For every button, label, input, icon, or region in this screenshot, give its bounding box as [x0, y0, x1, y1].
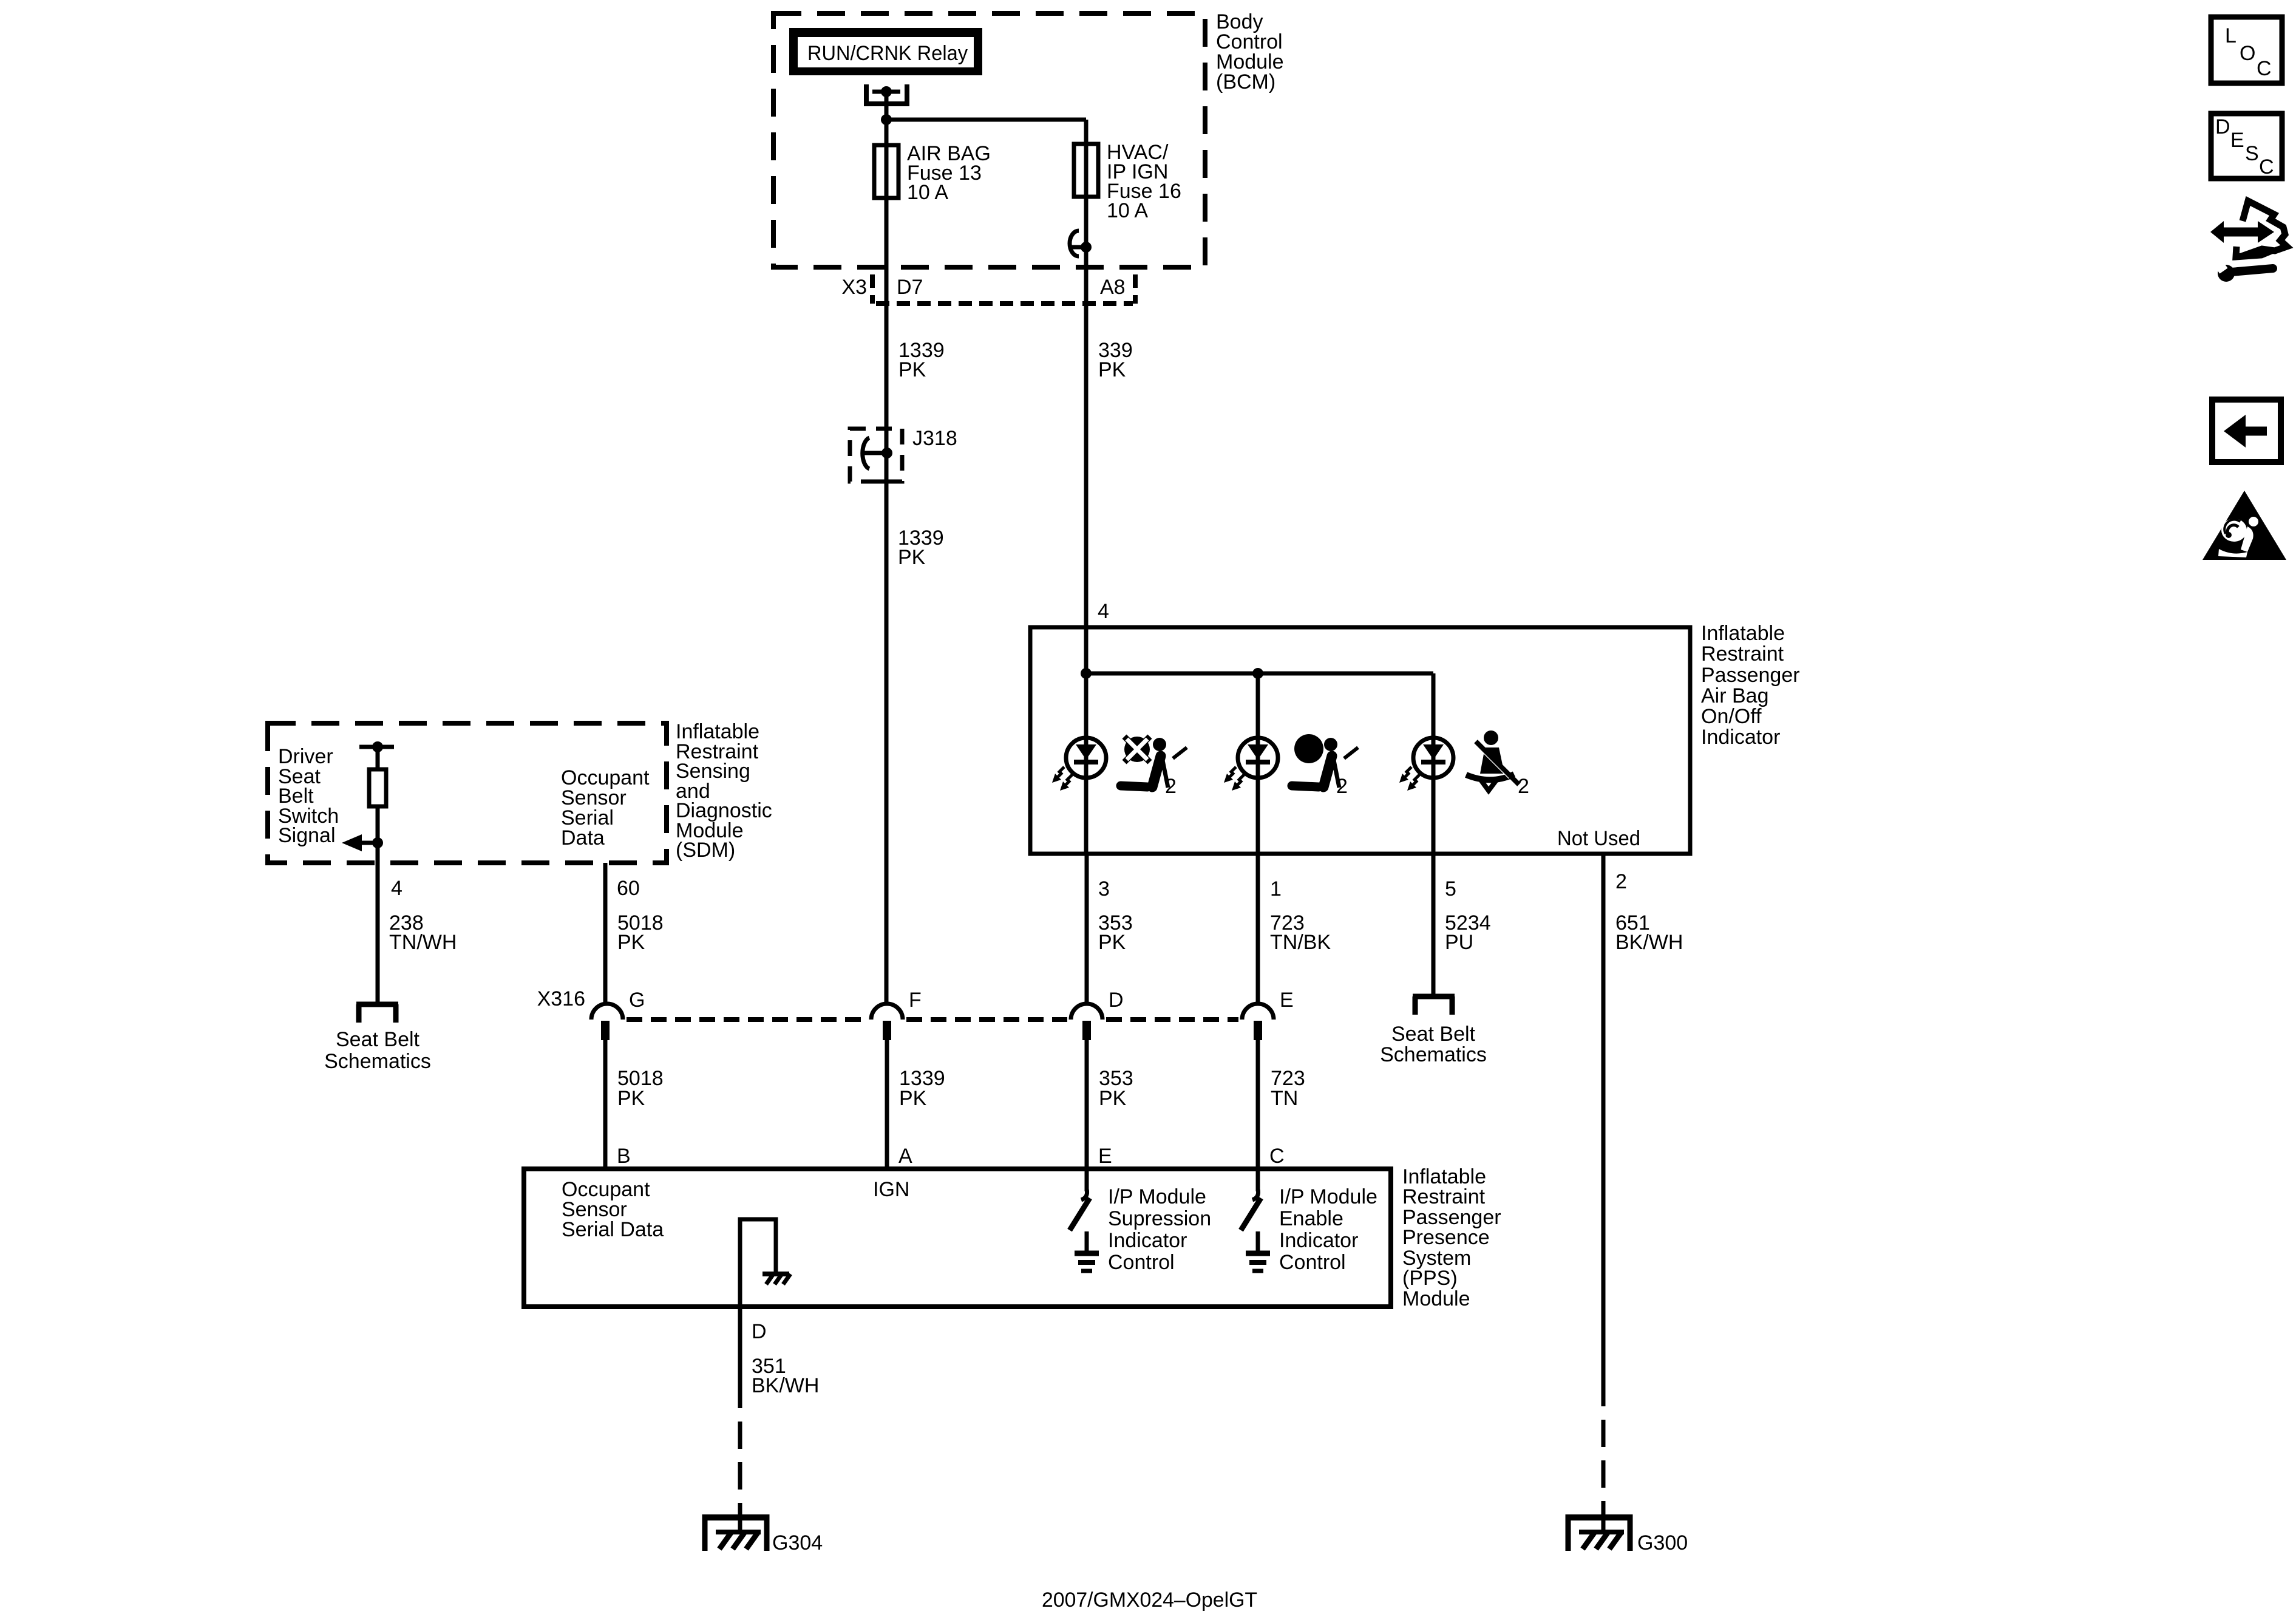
connector pin terminal at x=997: [601, 1021, 610, 1040]
svg-text:A8: A8: [1100, 276, 1126, 299]
label Seat Belt Schematics (right): [1380, 1023, 1487, 1066]
wire: 351 BK/WH dashed section: [738, 1422, 742, 1532]
ground: PPS internal chassis ground: [763, 1274, 790, 1284]
svg-text:D: D: [1109, 989, 1124, 1012]
svg-text:A: A: [898, 1145, 912, 1168]
label I/P Module Enable Indicator Control: [1279, 1185, 1377, 1274]
off-page connector: Seat Belt Schematics (right): [1413, 996, 1455, 1015]
ground G300: [1566, 1514, 1632, 1551]
switch: I/P module supression indicator control output: [1070, 1169, 1099, 1271]
LED indicator 3 (seat belt): [1399, 738, 1453, 791]
connector arc pin F: [871, 1004, 903, 1020]
module box PPS (Passenger Presence System): [524, 1169, 1391, 1307]
wire: dashed harness line G-F: [627, 1017, 868, 1022]
label indicator module: [1701, 622, 1800, 749]
svg-text:Schematics: Schematics: [324, 1050, 431, 1073]
label wire 353 PK (lower): [1099, 1067, 1133, 1110]
svg-text:RUN/CRNK Relay: RUN/CRNK Relay: [807, 42, 968, 65]
label wire 651 BK/WH: [1615, 911, 1683, 954]
svg-text:2: 2: [1165, 775, 1177, 798]
svg-text:I/P Module: I/P Module: [1108, 1185, 1206, 1208]
terminal bar at driver seat belt switch wire top: [359, 741, 394, 752]
module box: Inflatable Restraint Passenger Air Bag On/Off Indicator: [1030, 627, 1690, 854]
svg-text:BK/WH: BK/WH: [752, 1374, 819, 1397]
svg-text:On/Off: On/Off: [1701, 705, 1762, 728]
svg-text:Signal: Signal: [278, 824, 336, 847]
svg-text:1: 1: [1270, 877, 1282, 901]
label wire 1339 PK (lower): [898, 526, 944, 569]
wire: 1790 to PPS module: [1085, 1040, 1089, 1169]
svg-text:PK: PK: [1098, 358, 1126, 381]
label fuse 16: [1107, 141, 1181, 222]
svg-text:PU: PU: [1445, 931, 1473, 954]
wire: driver seat belt switch signal vertical: [376, 747, 380, 1003]
label wire 5234 PU: [1445, 911, 1491, 954]
off-page connector: Seat Belt Schematics (left): [356, 1004, 398, 1023]
label I/P Module Supression Indicator Control: [1108, 1185, 1211, 1274]
wire: 1461 to PPS module: [885, 1040, 889, 1169]
connector pin terminal at x=1790: [1082, 1021, 1091, 1040]
svg-text:PK: PK: [898, 546, 926, 569]
svg-text:Data: Data: [561, 826, 605, 850]
connector J318 symbol: [863, 438, 896, 482]
module box BCM (Body Control Module) dashed outline: [773, 13, 1205, 267]
label wire 1339 PK (third): [899, 1067, 945, 1110]
svg-text:2007/GMX024–OpelGT: 2007/GMX024–OpelGT: [1042, 1588, 1257, 1612]
svg-text:4: 4: [1098, 600, 1109, 623]
icon: passenger air bag OFF pictograph: [1121, 737, 1187, 788]
svg-text:Inflatable: Inflatable: [1701, 622, 1785, 645]
connector X3 pin D7 / A8 dashed row: [872, 274, 1135, 304]
wire: LED2 branch: [1256, 673, 1260, 854]
resistor R: seat belt switch pull-up: [369, 769, 386, 806]
wire: HVAC fuse vertical (339 PK feed): [1084, 120, 1089, 854]
fuse F13: AIR BAG Fuse 13 10 A: [874, 145, 898, 198]
relay K: RUN/CRNK Relay label box: [789, 28, 982, 75]
label Seat Belt Schematics (left): [324, 1028, 431, 1073]
svg-text:IGN: IGN: [873, 1178, 909, 1201]
icon: LOC box (sidebar): [2211, 17, 2282, 83]
svg-text:Serial Data: Serial Data: [562, 1218, 664, 1241]
svg-text:F: F: [909, 989, 922, 1012]
wire: 5234 PU to seat belt schematics: [1432, 854, 1436, 994]
svg-text:X316: X316: [537, 987, 585, 1010]
label BCM: [1216, 10, 1284, 94]
svg-text:(SDM): (SDM): [676, 839, 735, 862]
svg-text:Supression: Supression: [1108, 1207, 1211, 1230]
svg-text:PK: PK: [898, 358, 926, 381]
svg-text:PK: PK: [1099, 1087, 1127, 1110]
LED indicator 2 (passenger air bag on): [1224, 738, 1278, 791]
icon: seat belt pictograph: [1466, 730, 1519, 791]
svg-text:5: 5: [1445, 877, 1456, 901]
svg-text:D: D: [2215, 115, 2230, 138]
svg-text:Module: Module: [1402, 1287, 1470, 1310]
switch: ignition contact below fuse 16: [1070, 231, 1092, 256]
svg-text:G304: G304: [772, 1531, 823, 1554]
wire: dashed harness line D-E: [1106, 1017, 1238, 1022]
svg-text:Restraint: Restraint: [1701, 642, 1784, 666]
svg-text:TN/BK: TN/BK: [1270, 931, 1331, 954]
label Occupant Sensor Serial Data (SDM): [561, 766, 650, 850]
svg-text:Passenger: Passenger: [1701, 664, 1800, 687]
svg-text:Control: Control: [1279, 1251, 1346, 1274]
relay contact (RUN/CRNK relay output contact): [866, 84, 907, 104]
svg-text:10 A: 10 A: [1107, 199, 1148, 222]
svg-text:O: O: [2240, 42, 2255, 65]
svg-text:Control: Control: [1108, 1251, 1175, 1274]
svg-text:3: 3: [1098, 877, 1110, 901]
svg-text:D: D: [752, 1320, 767, 1343]
wire: LED3 branch: [1432, 673, 1436, 854]
svg-text:C: C: [2257, 57, 2272, 80]
svg-text:4: 4: [391, 877, 402, 900]
svg-text:Not Used: Not Used: [1557, 827, 1640, 850]
svg-text:Enable: Enable: [1279, 1207, 1343, 1230]
svg-text:X3: X3: [841, 276, 867, 299]
svg-text:E: E: [1280, 989, 1294, 1012]
svg-text:2: 2: [1518, 775, 1529, 798]
svg-text:E: E: [1098, 1145, 1112, 1168]
icon: air bag warning triangle (sidebar): [2203, 491, 2286, 560]
svg-text:10 A: 10 A: [907, 181, 948, 204]
node: junction at signal arrow: [372, 837, 383, 848]
svg-text:L: L: [2225, 24, 2237, 47]
svg-text:Schematics: Schematics: [1380, 1043, 1487, 1066]
label wire 353 PK (upper): [1098, 911, 1133, 954]
wire: 651 BK/WH dashed section: [1601, 1420, 1606, 1532]
module box SDM (Inflatable Restraint Sensing and Diagnostic Module) dashed: [268, 723, 667, 863]
wire: dashed harness line F-D: [906, 1017, 1067, 1022]
svg-text:C: C: [2259, 155, 2274, 179]
svg-text:I/P Module: I/P Module: [1279, 1185, 1377, 1208]
svg-text:2: 2: [1336, 775, 1348, 798]
svg-text:C: C: [1269, 1145, 1285, 1168]
svg-text:(PPS): (PPS): [1402, 1267, 1458, 1290]
label wire 723 TN/BK: [1270, 911, 1331, 954]
connector pin terminal at x=1461: [883, 1021, 891, 1040]
svg-text:Presence: Presence: [1402, 1226, 1490, 1249]
svg-text:Seat Belt: Seat Belt: [336, 1028, 420, 1051]
svg-text:Seat Belt: Seat Belt: [1391, 1023, 1476, 1046]
connector arc pin E: [1242, 1004, 1274, 1020]
label wire 339 PK: [1098, 339, 1133, 381]
wire: internal bus in indicator: [1086, 672, 1433, 676]
svg-text:B: B: [617, 1145, 631, 1168]
svg-text:PK: PK: [1098, 931, 1126, 954]
arrow: signal direction (left): [342, 834, 378, 851]
svg-text:E: E: [2230, 129, 2244, 152]
node: bus junction LED1: [1081, 668, 1092, 679]
svg-text:Restraint: Restraint: [1402, 1185, 1486, 1208]
label fuse 13: [907, 142, 991, 204]
wire: 997 to PPS module: [603, 1040, 608, 1169]
connector arc pin G: [591, 1004, 623, 1020]
connector pin terminal at x=2072: [1254, 1021, 1262, 1040]
wire: 353 PK from indicator pin 3 to connector D: [1085, 854, 1089, 1006]
label Driver Seat Belt Switch Signal: [278, 745, 339, 847]
svg-text:Air Bag: Air Bag: [1701, 684, 1769, 707]
svg-text:(BCM): (BCM): [1216, 70, 1275, 94]
icon: diagnostic pointer with wrench (sidebar): [2210, 201, 2287, 282]
wire: PPS internal ground branch: [740, 1219, 776, 1307]
svg-text:S: S: [2245, 142, 2259, 165]
wire: occupant sensor serial data from SDM: [603, 863, 608, 1006]
wire: 651 BK/WH to G300 (solid): [1601, 854, 1606, 1406]
splice connector J318 dashed box: [850, 429, 902, 482]
wire: 351 BK/WH solid from PPS: [738, 1307, 742, 1408]
node: junction at relay output: [881, 114, 892, 125]
label wire 723 TN: [1271, 1067, 1305, 1110]
ground G304: [702, 1514, 769, 1551]
svg-text:J318: J318: [912, 427, 957, 450]
label wire 1339 PK (upper): [898, 339, 945, 381]
label wire 5018 PK (upper): [617, 911, 664, 954]
wire: 2072 to PPS module: [1256, 1040, 1260, 1169]
svg-text:Indicator: Indicator: [1108, 1229, 1187, 1252]
label PPS module: [1402, 1165, 1501, 1310]
LED indicator 1 (passenger air bag off): [1052, 738, 1106, 791]
node: bus junction LED2: [1252, 668, 1263, 679]
label wire 238 TN/WH: [389, 911, 457, 954]
fuse F16: HVAC/IP IGN Fuse 16 10 A: [1074, 144, 1098, 197]
switch: I/P module enable indicator control output: [1241, 1169, 1270, 1271]
icon: passenger air bag ON pictograph: [1292, 734, 1358, 788]
svg-text:PK: PK: [899, 1087, 927, 1110]
svg-text:Indicator: Indicator: [1279, 1229, 1358, 1252]
wire: relay to junction: [885, 92, 889, 120]
svg-text:G: G: [629, 989, 645, 1012]
svg-text:BK/WH: BK/WH: [1615, 931, 1683, 954]
svg-text:G300: G300: [1637, 1531, 1688, 1554]
svg-text:60: 60: [617, 877, 640, 900]
connector arc pin D: [1071, 1004, 1102, 1020]
wire: junction to HVAC fuse branch (horizontal): [886, 118, 1086, 122]
label wire 351 BK/WH: [752, 1355, 819, 1397]
label wire 5018 PK (lower): [617, 1067, 664, 1110]
svg-text:PK: PK: [617, 931, 645, 954]
wire: 723 TN/BK from indicator pin 1 to connector E: [1256, 854, 1260, 1006]
svg-text:PK: PK: [617, 1087, 645, 1110]
wire: AIR BAG fuse branch vertical (1339 PK feed): [885, 120, 889, 1006]
label Occupant Sensor Serial Data (PPS): [562, 1178, 664, 1241]
svg-text:TN/WH: TN/WH: [389, 931, 457, 954]
svg-text:2: 2: [1615, 870, 1627, 893]
icon: back arrow box (sidebar): [2212, 400, 2281, 462]
svg-text:Indicator: Indicator: [1701, 726, 1780, 749]
icon: DESC box (sidebar): [2211, 114, 2282, 179]
svg-text:D7: D7: [897, 276, 923, 299]
label SDM module: [676, 720, 772, 862]
svg-text:TN: TN: [1271, 1087, 1298, 1110]
